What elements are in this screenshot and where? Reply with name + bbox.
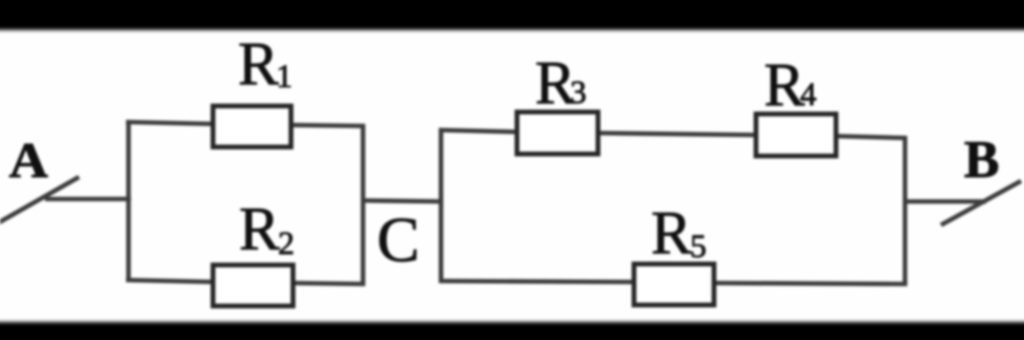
wire: left box top, left of R1 <box>126 122 216 124</box>
svg-text:4: 4 <box>800 77 817 113</box>
svg-text:C: C <box>377 204 420 275</box>
wire: right box top, left of R3 <box>439 130 519 132</box>
wire: right box top, right of R4 <box>833 136 907 138</box>
label R3 <box>535 50 587 117</box>
bottom black bar <box>0 322 1024 340</box>
svg-text:R: R <box>239 196 280 263</box>
svg-text:R: R <box>764 52 805 119</box>
svg-text:3: 3 <box>570 75 587 111</box>
svg-text:1: 1 <box>276 59 293 95</box>
svg-text:R: R <box>651 200 692 267</box>
terminal A slash <box>0 177 79 223</box>
resistor R4 <box>756 114 836 156</box>
wire: right box top, between R3 and R4 <box>596 133 758 135</box>
svg-text:2: 2 <box>278 226 295 262</box>
label R1 <box>238 31 293 98</box>
wire: left box left vertical <box>126 122 131 281</box>
top black bar <box>0 0 1024 30</box>
svg-text:5: 5 <box>690 229 707 265</box>
wire: left box top, right of R1 <box>289 125 365 126</box>
wire: left box bottom, right of R2 <box>291 283 365 284</box>
svg-text:A: A <box>9 132 48 188</box>
resistor R5 <box>634 264 714 305</box>
wire: right box bottom, left of R5 <box>439 281 636 282</box>
resistor R3 <box>517 112 598 154</box>
wire: left box right vertical <box>361 124 366 286</box>
wire A to left box <box>45 197 131 202</box>
svg-text:R: R <box>238 31 279 98</box>
resistor R1 <box>213 106 291 147</box>
label R2 <box>239 196 295 263</box>
wire: node C link between boxes <box>363 201 441 202</box>
resistor R2 <box>213 265 293 306</box>
label R5 <box>651 200 707 267</box>
wire: left box bottom, left of R2 <box>126 280 216 282</box>
label R4 <box>764 52 817 119</box>
terminal B slash <box>941 181 1021 225</box>
svg-text:B: B <box>964 131 999 189</box>
wire: right box to terminal B <box>905 199 986 204</box>
wire: right box right vertical <box>903 136 908 286</box>
wire: right box bottom, right of R5 <box>712 283 907 284</box>
wire: right box left vertical <box>439 128 444 283</box>
